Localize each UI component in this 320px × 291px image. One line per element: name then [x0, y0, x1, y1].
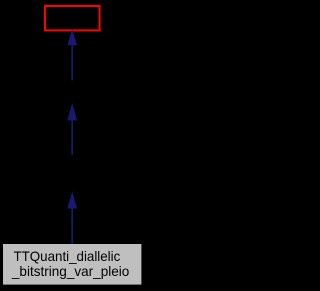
svg-text:_bitstring_var_pleio: _bitstring_var_pleio: [11, 263, 130, 279]
svg-text:TTQuanti_diallelic: TTQuanti_diallelic: [14, 248, 121, 264]
